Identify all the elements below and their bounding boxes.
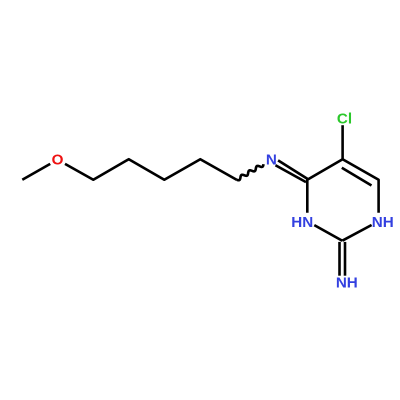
pyrimidine ring (307, 159, 378, 213)
svg-text:NH: NH (372, 214, 394, 231)
bond N1-C2 (342, 225, 371, 241)
svg-text:NH: NH (336, 275, 358, 292)
svg-text:HN: HN (291, 214, 313, 231)
chain O-C-C-C-C-C (65, 159, 237, 180)
double bond N=C4 (276, 165, 307, 182)
bond N3-C2 (314, 225, 342, 241)
svg-text:Cl: Cl (337, 111, 352, 128)
wavy bond C-N (undefined stereo) (237, 164, 264, 180)
bond C5-Cl (341, 125, 344, 159)
svg-text:O: O (52, 152, 64, 169)
double bond C2=NH (338, 242, 341, 276)
svg-text:N: N (266, 152, 277, 169)
bond CH3-O (22, 164, 50, 180)
double bond C5=C6 inner line (342, 168, 372, 186)
